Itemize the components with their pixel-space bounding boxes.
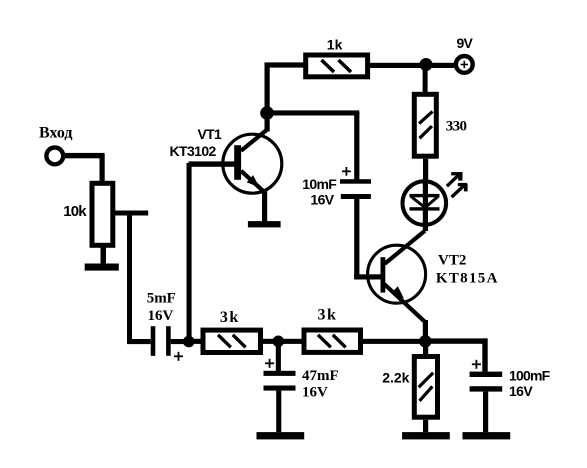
svg-text:16V: 16V — [302, 384, 328, 400]
transistor VT2 emitter diagonal — [384, 284, 425, 322]
ground below VT1 emitter — [248, 221, 281, 227]
ground below 2.2k — [402, 432, 450, 439]
plus sign 47mF — [265, 362, 274, 364]
svg-text:VT1: VT1 — [198, 126, 222, 142]
svg-text:VT2: VT2 — [438, 253, 466, 269]
wire node E to 100mF corner — [425, 338, 487, 343]
resistor R3 330 — [414, 94, 436, 156]
svg-text:10k: 10k — [63, 203, 87, 220]
wire 10k bottom stub — [101, 248, 107, 265]
wire 100mF to ground — [483, 392, 488, 433]
input terminal — [46, 148, 63, 165]
plus sign inside 9V terminal — [461, 64, 468, 66]
transistor VT1 collector diagonal — [241, 129, 269, 151]
wire VT2 base horizontal — [354, 274, 381, 279]
wire C1 to node A — [171, 339, 189, 344]
wire 10mF down to VT2 base — [354, 199, 359, 280]
svg-text:330: 330 — [446, 118, 467, 134]
svg-text:Вход: Вход — [39, 124, 72, 141]
transistor VT2 circle — [368, 245, 426, 303]
LED triangle top bar — [410, 194, 440, 197]
svg-text:KT3102: KT3102 — [170, 143, 217, 159]
LED cathode bar — [410, 207, 440, 210]
svg-text:3k: 3k — [318, 306, 338, 323]
wire node B corner to 1k — [265, 62, 306, 67]
wire R4 to node D — [263, 339, 302, 344]
resistor R4 slash marks — [218, 335, 231, 348]
LED triangle right side — [425, 197, 438, 208]
svg-text:100mF: 100mF — [509, 367, 551, 383]
wire through LED vertical — [423, 180, 428, 231]
wire 2.2k to ground — [423, 420, 428, 432]
wire VT1 base inside circle — [221, 161, 237, 166]
wire LED to VT2 collector diagonal — [385, 231, 425, 264]
node E junction dot — [419, 335, 432, 348]
wire collector vertical up to node B — [265, 63, 270, 132]
wire node C down to 330 — [423, 65, 428, 93]
wire 330 to LED — [423, 159, 428, 181]
transistor VT2 base bar — [381, 257, 386, 292]
wire node D down to 47mF — [276, 341, 281, 371]
resistor R1 10k — [92, 183, 113, 245]
wire VT1 emitter vertical — [262, 190, 267, 222]
node D junction dot — [273, 336, 285, 348]
capacitor C4 100mF plates — [470, 372, 503, 377]
wire 1k to 9V terminal — [370, 63, 454, 68]
wire node E down to 2.2k — [423, 343, 428, 355]
ground below 100mF — [463, 432, 511, 439]
LED light arrow 1 — [447, 174, 460, 186]
svg-text:47mF: 47mF — [302, 368, 339, 384]
wire 47mF to ground — [276, 391, 281, 433]
wire corner down to 100mF — [482, 338, 487, 371]
svg-text:16V: 16V — [310, 191, 334, 207]
resistor R5 3k — [304, 330, 361, 352]
svg-text:5mF: 5mF — [147, 291, 176, 307]
svg-text:16V: 16V — [509, 383, 533, 399]
wire node A to first 3k — [189, 339, 201, 344]
resistor R6 slash marks — [419, 373, 434, 388]
resistor R5 slash marks — [318, 335, 331, 348]
resistor 1k slash marks — [322, 60, 335, 72]
wire VT1 base horizontal — [189, 161, 236, 166]
wire R5 to node E — [363, 339, 425, 344]
transistor VT1 circle — [223, 134, 282, 193]
svg-text:10mF: 10mF — [302, 176, 337, 192]
ground below 47mF — [257, 432, 305, 439]
wire VT2 emitter vertical — [423, 320, 428, 343]
transistor VT1 emitter diagonal — [241, 171, 264, 192]
svg-text:KT815A: KT815A — [436, 271, 499, 287]
plus sign 100mF — [472, 363, 481, 365]
wire corner down to 10mF — [354, 112, 359, 180]
svg-text:9V: 9V — [457, 35, 474, 51]
node A junction dot — [183, 336, 195, 348]
svg-text:3k: 3k — [220, 309, 240, 326]
wire tap vertical down — [127, 212, 132, 342]
transistor VT2 emitter arrowhead — [391, 286, 404, 298]
svg-text:2.2k: 2.2k — [382, 370, 409, 386]
capacitor C1 5mF plates — [151, 326, 156, 356]
transistor VT1 base bar — [234, 145, 241, 180]
ground below 10k — [85, 264, 119, 271]
terminal 9V — [456, 56, 473, 73]
resistor R2 1k — [306, 55, 368, 77]
node B junction dot — [260, 106, 274, 120]
LED D1 circle — [403, 181, 447, 225]
resistor R4 3k — [203, 330, 261, 352]
wire 10k tap horizontal — [115, 211, 148, 216]
wire node A up to VT1 base — [187, 163, 192, 342]
wire into C1 — [127, 339, 151, 344]
wire input vertical — [100, 154, 105, 182]
plus sign 10mF — [342, 170, 351, 172]
LED triangle left side — [411, 197, 425, 208]
node C junction dot — [420, 58, 433, 71]
resistor 330 slash marks — [419, 111, 432, 123]
capacitor C2 10mF plates — [340, 179, 371, 184]
plus sign C1 — [174, 355, 183, 357]
resistor R6 2.2k — [414, 357, 437, 418]
wire node B to 10mF corner — [265, 110, 360, 115]
LED light arrow 2 — [452, 186, 464, 198]
transistor VT1 emitter arrowhead — [247, 175, 260, 187]
wire input horizontal — [64, 153, 105, 158]
svg-text:1k: 1k — [327, 37, 343, 53]
svg-text:16V: 16V — [148, 308, 174, 324]
capacitor C3 47mF plates — [264, 371, 296, 376]
